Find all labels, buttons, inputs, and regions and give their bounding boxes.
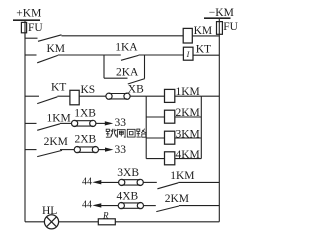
wire ladder left rail [145,96,147,158]
connecting link 1XB [72,120,78,126]
relay coil KT [183,47,193,60]
wire [96,122,106,124]
contactor coil 1KM [146,95,164,97]
wire branch up right [144,55,146,78]
wire right bus [218,34,220,222]
wire [144,205,156,207]
wire bottom row [25,221,44,223]
wire to right bus [179,205,219,207]
svg-text:R: R [102,210,109,220]
arrow from 44 [92,180,101,184]
contact 2KA [128,79,145,84]
wire KM coil to right bus [192,35,219,37]
contact 2KM (row G) [156,206,179,212]
wire KT coil to right bus [193,54,219,56]
contactor coil KM [183,28,192,43]
wire [59,221,99,223]
svg-text:33: 33 [115,117,127,129]
svg-text:3XB: 3XB [117,167,139,179]
svg-text:44: 44 [82,176,92,187]
row C: contact KT [25,95,39,97]
wire [60,149,74,151]
svg-text:KT: KT [51,82,66,94]
svg-text:33: 33 [115,144,127,156]
svg-text:FU: FU [28,22,43,34]
svg-text:2KM: 2KM [44,136,68,148]
svg-text:FU: FU [223,21,238,33]
wire 2KA branch [104,77,128,79]
contactor coil 4KM [146,158,164,160]
wire row A [62,35,184,37]
svg-text:1KM: 1KM [170,170,194,182]
svg-text:44: 44 [82,200,92,211]
svg-text:+KM: +KM [16,7,41,19]
contact 1KM (row F) [157,183,178,189]
resistor R [98,219,115,225]
connecting link 4XB [118,203,124,209]
arrow from 44 [92,203,101,207]
wire [115,221,219,223]
node 33 trip circuit text (tiao zha hui lu) [106,129,147,138]
wire [101,181,119,183]
wire [99,149,106,151]
svg-text:I: I [186,50,190,59]
lamp HL [44,215,58,229]
wire [143,181,157,183]
svg-text:4XB: 4XB [117,191,139,203]
svg-text:2KM: 2KM [165,193,189,205]
terminal bar +KM [13,19,40,21]
wire [79,95,106,97]
wire [57,95,70,97]
wire to right bus [178,181,219,183]
wire [60,122,72,124]
terminal bar -KM [204,17,231,19]
wire [130,95,146,97]
row E: contact 2KM [25,149,37,151]
connecting link 2XB [74,147,80,153]
contactor coil 2KM [146,116,164,118]
contact 1KA [104,54,121,56]
wire ladder right rail [200,96,202,158]
svg-text:2KM: 2KM [176,107,200,119]
svg-text:4KM: 4KM [176,149,200,161]
svg-text:2XB: 2XB [75,133,97,145]
wire to right bus [201,95,219,97]
svg-text:1XB: 1XB [74,108,96,120]
node +KM label [0,0,1,1]
switch KS [70,90,79,105]
svg-text:1KM: 1KM [47,113,71,125]
wire [58,54,104,56]
svg-text:1KA: 1KA [115,42,138,54]
node -KM label [0,0,1,1]
svg-text:1KM: 1KM [176,86,200,98]
row D: contact 1KM [25,122,37,124]
wire [101,205,118,207]
wire [139,54,184,56]
svg-text:KM: KM [47,43,66,55]
arrow to 33 [105,121,113,125]
svg-text:KT: KT [196,44,211,56]
svg-text:KS: KS [81,84,96,96]
svg-text:3KM: 3KM [176,129,200,141]
connecting link 3XB [119,179,125,185]
svg-text:2KA: 2KA [116,66,139,78]
svg-text:−KM: −KM [209,7,234,19]
row A: contact KM aux [25,37,38,39]
connecting link XB [106,93,112,99]
wire left bus [24,33,26,222]
arrow to 33 [105,148,113,152]
contactor coil 3KM [146,137,164,139]
row B: contact KM [25,54,37,56]
fuse FU (right) [217,22,223,35]
wire branch down left [103,55,105,78]
svg-text:HL: HL [42,205,57,217]
fuse FU (left) [21,22,26,32]
svg-text:XB: XB [128,83,144,95]
